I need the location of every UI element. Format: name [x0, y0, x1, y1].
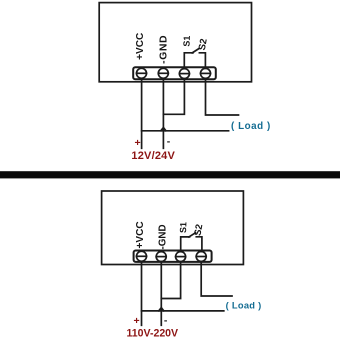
wire W1 from +VCC terminal to supply +	[141, 78, 143, 148]
svg-text:S2: S2	[193, 223, 206, 236]
svg-text:S1: S1	[178, 222, 188, 233]
svg-text:+VCC: +VCC	[135, 221, 146, 249]
terminal 3 (S1) screw	[179, 69, 189, 79]
terminal 5 (+VCC) screw	[137, 251, 147, 261]
terminal 7 (S1) screw	[176, 252, 186, 262]
terminal 2 (-GND) screw	[158, 68, 168, 78]
wire W9 from S2 terminal to load	[201, 262, 232, 297]
wire W3 from S1 terminal joining wire W2	[163, 79, 184, 115]
terminal 1 (+VCC) screw	[137, 68, 147, 78]
terminal 8 (S2) screw	[196, 252, 206, 262]
svg-text:12V/24V: 12V/24V	[131, 150, 175, 162]
wire W2 from -GND terminal to supply - (hops over load bus)	[161, 78, 166, 148]
terminal block TB2	[134, 251, 212, 262]
wire W8 from S1 terminal joining wire W7	[161, 262, 180, 299]
svg-text:( Load ): ( Load )	[226, 300, 262, 310]
separator bar	[0, 171, 340, 178]
terminal 4 (S2) screw	[201, 68, 211, 78]
terminal 6 (-GND) screw	[156, 252, 166, 262]
svg-text:S2: S2	[197, 38, 210, 51]
wire W10 load bus from W6 to load	[142, 310, 224, 312]
svg-text:S1: S1	[182, 36, 192, 47]
svg-text:+: +	[135, 137, 141, 149]
svg-text:-GND: -GND	[158, 35, 169, 64]
relay contact switch SW1 between S1 and S2	[184, 49, 205, 69]
svg-text:-: -	[164, 315, 168, 327]
terminal block TB1	[133, 67, 216, 79]
module U2 enclosure (110V-220V thermostat)	[102, 191, 244, 265]
svg-text:+: +	[134, 315, 140, 327]
svg-text:( Load ): ( Load )	[231, 121, 271, 132]
wire W4 from S2 terminal to load	[206, 78, 239, 115]
relay contact switch SW2 between S1 and S2	[181, 233, 202, 252]
svg-text:+VCC: +VCC	[135, 32, 146, 60]
svg-text:110V-220V: 110V-220V	[127, 327, 179, 339]
wire W6 from +VCC terminal to supply +	[141, 261, 143, 325]
svg-text:-GND: -GND	[158, 224, 169, 249]
wire W5 load bus from W1 to load	[142, 130, 229, 132]
module U1 enclosure (12V/24V thermostat)	[99, 3, 251, 82]
svg-text:-: -	[167, 135, 171, 147]
wire W7 from -GND terminal to supply - (hops over load bus)	[159, 262, 164, 326]
